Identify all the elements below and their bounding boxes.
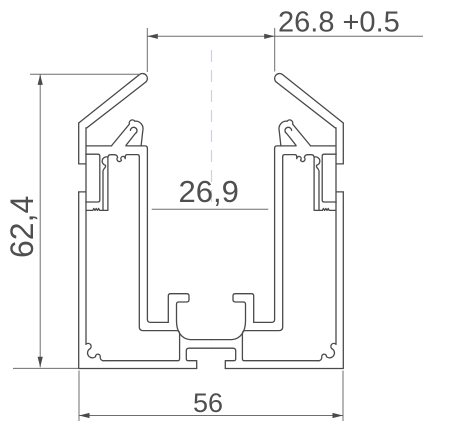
arrow bottom of 62,4 — [38, 357, 43, 368]
dimension 26,9 line — [152, 208, 269, 210]
extension line right of 56 — [342, 371, 344, 422]
arrow left of 56 — [79, 413, 90, 418]
svg-text:26,9: 26,9 — [179, 174, 239, 209]
svg-text:62,4: 62,4 — [4, 196, 40, 258]
profile right half (mirror) — [211, 74, 343, 369]
extension line left of 56 — [78, 371, 80, 422]
extension line bottom of 62,4 — [13, 367, 79, 369]
profile left half — [79, 74, 211, 369]
extension line top of 62,4 — [30, 73, 140, 75]
dimension 56 line — [79, 415, 343, 417]
svg-text:26.8 +0.5: 26.8 +0.5 — [278, 7, 400, 39]
svg-text:56: 56 — [193, 388, 223, 418]
arrow right of 56 — [333, 413, 344, 418]
dimension 62,4 line — [39, 74, 41, 367]
arrow top of 62,4 — [38, 74, 43, 85]
dimension 26.8 +0.5 line — [147, 35, 423, 37]
arrow right of 26.8 — [264, 34, 275, 39]
centre line (dashed) — [211, 50, 213, 205]
arrow left of 26.8 — [147, 34, 158, 39]
extension line right of 26.8 — [274, 28, 276, 72]
extension line left of 26.8 — [146, 28, 148, 72]
